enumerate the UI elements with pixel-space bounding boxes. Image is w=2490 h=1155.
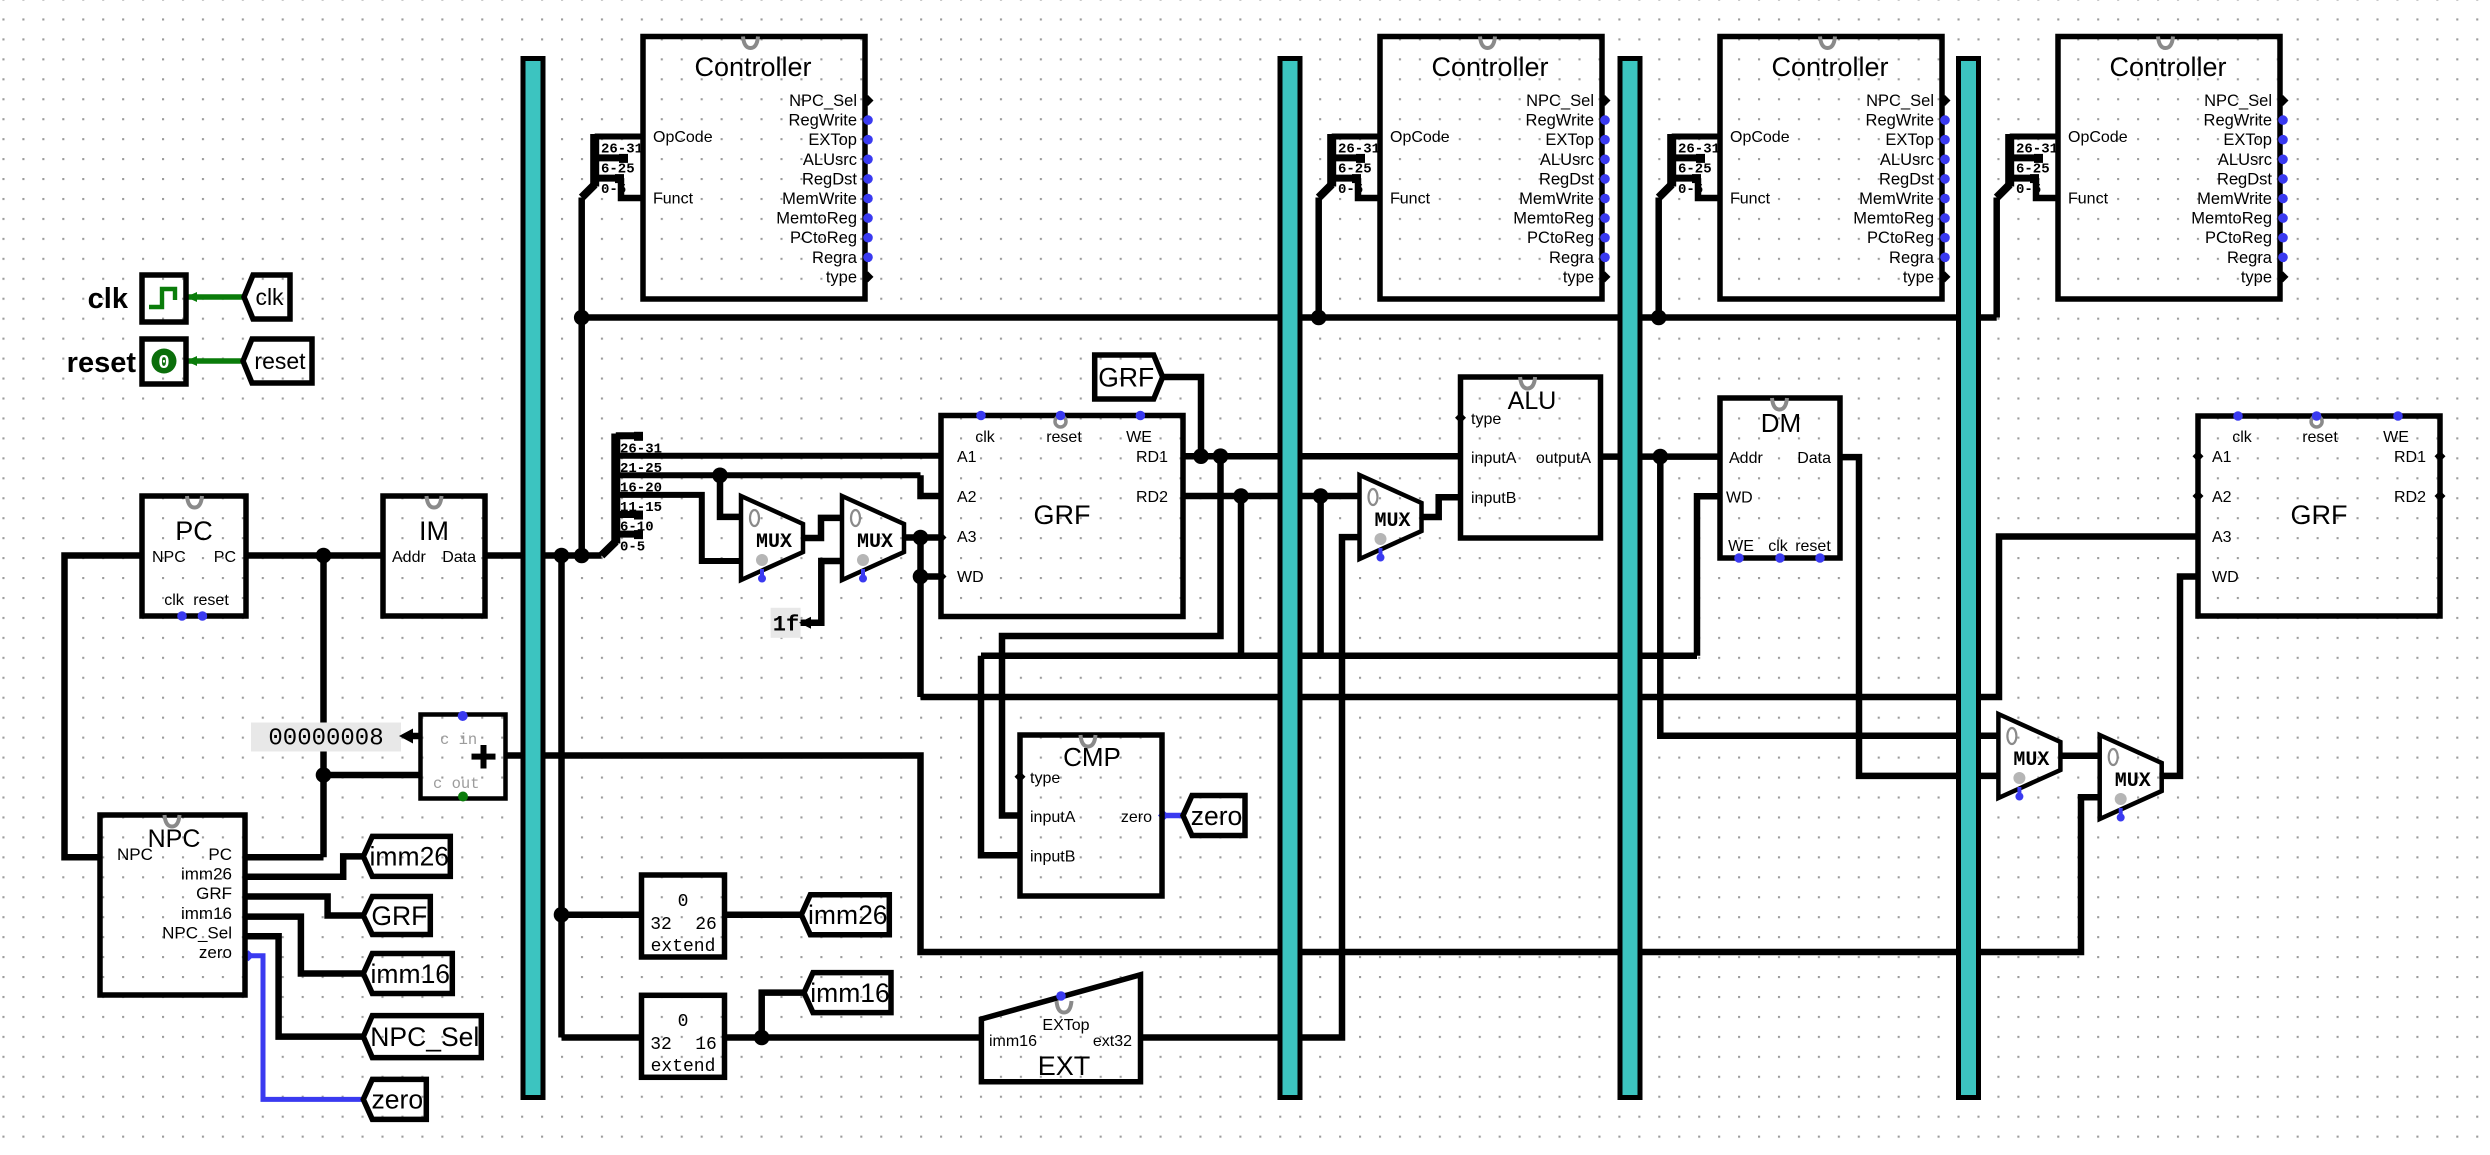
svg-text:Controller: Controller (1431, 52, 1548, 82)
mux MUX5 PCtoReg (2100, 735, 2162, 822)
wire to extend26 input (562, 911, 642, 918)
label splitter GRF 0-5 (620, 539, 645, 555)
svg-text:Controller: Controller (694, 52, 811, 82)
svg-text:1f: 1f (773, 613, 799, 638)
svg-text:MUX: MUX (857, 531, 893, 554)
controller 4 box (2058, 37, 2280, 300)
splitter controller 4 diagonal (1997, 185, 2010, 198)
pin label controller 4.NPC_Sel (2204, 92, 2272, 110)
svg-text:MUX: MUX (1374, 510, 1410, 533)
svg-text:MemWrite: MemWrite (1859, 190, 1934, 208)
label controller 3 title (1771, 52, 1888, 82)
svg-text:Data: Data (442, 549, 476, 566)
pin controller 3.MemtoReg (blue) (1940, 213, 1950, 223)
svg-text:A3: A3 (2212, 529, 2232, 546)
mux MUX4 MemtoReg (1998, 714, 2060, 801)
wire GRF RD2 to MUX3 input0 (1183, 493, 1360, 500)
label adder plus symbol (472, 745, 496, 769)
svg-text:ALU: ALU (1508, 387, 1557, 415)
label IM title (419, 516, 449, 546)
pin GRFr A2 diamond (2193, 491, 2204, 502)
pin label controller 4.type (2241, 268, 2272, 286)
wire tap to GRF WD (921, 573, 942, 580)
clock notch DM (1772, 398, 1787, 410)
splitter controller 1 branch 26-31 to OpCode (595, 134, 643, 140)
pin label controller 3.PCtoReg (1867, 229, 1934, 247)
clock notch GRF (1055, 416, 1066, 427)
svg-text:NPC_Sel: NPC_Sel (789, 92, 857, 110)
junction PC-IM to NPC column (316, 548, 332, 564)
wire extend16 output (725, 1034, 982, 1041)
pin label controller 1.MemWrite (782, 190, 857, 208)
pin label EXT.imm16 (989, 1033, 1037, 1050)
pin label PC.PC (214, 549, 236, 566)
splitter controller 3 stub 6-25 (1672, 154, 1705, 163)
pin controller 2.NPC_Sel diamond (1600, 95, 1611, 106)
svg-text:type: type (1563, 268, 1594, 286)
svg-text:NPC_Sel: NPC_Sel (162, 924, 232, 943)
junction extend26 input (554, 907, 570, 923)
wire MUX1 output to MUX2 input0 (803, 518, 842, 538)
pin GRFr reset (blue) (2312, 411, 2322, 421)
svg-text:Regra: Regra (812, 249, 858, 267)
svg-text:GRF: GRF (1034, 500, 1091, 530)
pin label controller 2.MemtoReg (1513, 210, 1594, 228)
svg-text:RegWrite: RegWrite (1526, 112, 1594, 130)
pin controller 3.ALUsrc (blue) (1940, 155, 1950, 165)
svg-text:Regra: Regra (2227, 249, 2273, 267)
splitter controller 1 diagonal (582, 185, 595, 198)
svg-text:MemtoReg: MemtoReg (776, 210, 857, 228)
pin PC clk (blue) (177, 611, 187, 621)
pin label controller 2.EXTop (1545, 131, 1594, 149)
svg-text:WE: WE (1126, 429, 1152, 446)
svg-text:EXTop: EXTop (808, 131, 857, 149)
label controller 1 title (694, 52, 811, 82)
label clk (88, 283, 129, 315)
pin label GRF.WE (1126, 429, 1152, 446)
label EXT EXTop (1042, 1017, 1089, 1034)
clock notch ALU (1520, 377, 1535, 389)
svg-text:zero: zero (372, 1085, 424, 1115)
pin label controller 2.Regra (1549, 249, 1595, 267)
label splitter controller 1 6-25 (601, 162, 635, 178)
wire IM Data bus (485, 552, 602, 559)
pin controller 1.MemtoReg (blue) (863, 213, 873, 223)
extender EXT (981, 975, 1140, 1082)
pin controller 4.PCtoReg (blue) (2278, 233, 2288, 243)
pin label GRFr.A2 (2212, 489, 2232, 506)
svg-text:MemtoReg: MemtoReg (2191, 210, 2272, 228)
svg-text:Addr: Addr (392, 549, 426, 566)
pin label CMP.inputA (1030, 809, 1076, 826)
svg-text:clk: clk (1768, 538, 1789, 555)
wire extend column (558, 556, 565, 1038)
svg-text:GRF: GRF (196, 884, 232, 903)
pin label controller 2.OpCode (1390, 129, 1450, 146)
wire riser controller 1 (578, 198, 585, 556)
wire clk input to tunnel (green) (186, 292, 244, 302)
svg-text:32: 32 (650, 1035, 672, 1055)
svg-text:PC: PC (208, 845, 232, 864)
pin label controller 3.ALUsrc (1880, 151, 1934, 169)
wire splitter controller 1 to Funct (621, 178, 643, 198)
pin adder carry-out (green) (458, 792, 468, 802)
svg-text:PC: PC (175, 516, 213, 546)
pin label CMP.type (1030, 770, 1060, 787)
pin label GRFr.WE (2383, 429, 2409, 446)
pin label NPC.zero (199, 943, 232, 962)
pin label DM.Addr (1729, 450, 1763, 467)
pin GRF WE (blue) (1136, 411, 1146, 421)
pin controller 4.type diamond (2278, 271, 2289, 282)
pin controller 2.ALUsrc (blue) (1600, 155, 1610, 165)
svg-text:PCtoReg: PCtoReg (1527, 229, 1594, 247)
label reset (67, 347, 137, 379)
pin label IM.Addr (392, 549, 426, 566)
svg-text:PC: PC (214, 549, 236, 566)
pin label ALU.inputA (1471, 450, 1517, 467)
svg-text:c out: c out (433, 775, 480, 793)
wire RD1 to CMP inputA (1002, 456, 1221, 815)
svg-text:type: type (1471, 411, 1501, 428)
svg-text:EXTop: EXTop (2223, 131, 2272, 149)
pin label GRFr.WD (2212, 569, 2239, 586)
label splitter GRF 21-25 (620, 461, 662, 477)
splitter controller 4 stub 6-25 (2010, 154, 2043, 163)
junction IM bus to controller riser (574, 548, 590, 564)
pin label NPC.GRF (196, 884, 232, 903)
pin controller 4.Regra (blue) (2278, 252, 2288, 262)
svg-text:reset: reset (67, 347, 137, 379)
splitter GRF stub 6-10 (616, 511, 643, 520)
junction RD1 CMP tap (1213, 448, 1229, 464)
splitter GRF diagonal (602, 542, 616, 556)
svg-text:imm16: imm16 (371, 959, 451, 989)
splitter controller 1 spine (590, 134, 599, 187)
svg-text:A2: A2 (2212, 489, 2232, 506)
pin label NPC.NPC (117, 845, 153, 864)
pin label controller 4.OpCode (2068, 129, 2128, 146)
pin controller 2.PCtoReg (blue) (1600, 233, 1610, 243)
memory IM (383, 496, 485, 616)
svg-text:RD2: RD2 (1136, 489, 1168, 506)
splitter GRF branch 16-20 (616, 472, 921, 478)
pin GRFr RD1 diamond (2435, 451, 2446, 462)
wire NPC zero to zero tunnel (blue) (243, 950, 363, 1099)
adder PC+8 (421, 715, 506, 799)
svg-text:GRF: GRF (1098, 362, 1154, 392)
svg-text:clk: clk (2232, 429, 2253, 446)
wire to adder input B (324, 772, 421, 779)
svg-text:26-31: 26-31 (1338, 142, 1380, 158)
pin label controller 1.NPC_Sel (789, 92, 857, 110)
label splitter controller 3 26-31 (1678, 142, 1720, 158)
pin controller 4.RegDst (blue) (2278, 174, 2288, 184)
pin label controller 1.ALUsrc (803, 151, 857, 169)
svg-text:ALUsrc: ALUsrc (2218, 151, 2272, 169)
pipeline register bar 2 (1280, 59, 1300, 1098)
label splitter controller 4 26-31 (2016, 142, 2058, 158)
pin controller 1.type diamond (863, 271, 874, 282)
pin DM clk (blue) (1775, 553, 1785, 563)
label splitter controller 2 6-25 (1338, 162, 1372, 178)
pin controller 3.type diamond (1940, 271, 1951, 282)
splitter GRF branch 21-25 to GRF A1 (616, 453, 941, 459)
pin label GRF.clk (975, 429, 996, 446)
tunnel imm26 (extend) (801, 895, 889, 935)
pin GRF reset (blue) (1056, 411, 1066, 421)
svg-text:type: type (826, 268, 857, 286)
splitter controller 1 stub 6-25 (595, 154, 628, 163)
svg-text:6-25: 6-25 (601, 162, 635, 178)
pin label controller 3.Funct (1730, 191, 1771, 208)
splitter controller 3 spine (1667, 134, 1676, 187)
pin label DM.Data (1797, 450, 1831, 467)
pin label controller 1.RegDst (802, 170, 857, 188)
label splitter controller 4 6-25 (2016, 162, 2050, 178)
wire PC feedback column (320, 556, 327, 858)
splitter GRF spine (611, 434, 620, 544)
svg-text:NPC_Sel: NPC_Sel (370, 1022, 479, 1052)
pin label controller 2.NPC_Sel (1526, 92, 1594, 110)
pin label GRFr.reset (2302, 429, 2338, 446)
svg-text:MUX: MUX (2013, 749, 2049, 772)
clock notch GRF right (2311, 416, 2322, 427)
wire GRF tunnel to RD1 net (1163, 377, 1201, 456)
pin GRFr RD2 diamond (2435, 491, 2446, 502)
wire MUX2 output to GRF A3 (903, 534, 941, 541)
controller 2 box (1380, 37, 1602, 300)
svg-text:PCtoReg: PCtoReg (790, 229, 857, 247)
svg-text:Addr: Addr (1729, 450, 1763, 467)
label splitter controller 3 6-25 (1678, 162, 1712, 178)
pin controller 3.RegDst (blue) (1940, 174, 1950, 184)
pin GRF WD diamond (936, 571, 947, 582)
clock notch controller 2 (1480, 37, 1495, 49)
junction riser controller 1 (574, 310, 590, 326)
wire splitter controller 4 to Funct (2036, 178, 2058, 198)
label NPC title (148, 825, 201, 853)
tunnel zero (NPC) (363, 1079, 426, 1119)
svg-text:Funct: Funct (2068, 191, 2109, 208)
pin controller 1.ALUsrc (blue) (863, 155, 873, 165)
pin label controller 1.PCtoReg (790, 229, 857, 247)
splitter controller 3 diagonal (1659, 185, 1672, 198)
svg-text:NPC_Sel: NPC_Sel (1526, 92, 1594, 110)
pin label controller 3.EXTop (1885, 131, 1934, 149)
junction IM bus to extend column (554, 548, 570, 564)
svg-text:OpCode: OpCode (2068, 129, 2128, 146)
svg-text:MemWrite: MemWrite (782, 190, 857, 208)
pin label PC.clk (164, 592, 185, 609)
pin label GRF.RD2 (1136, 489, 1168, 506)
svg-text:RD1: RD1 (1136, 449, 1168, 466)
pin label controller 2.RegWrite (1526, 112, 1594, 130)
pin label controller 3.NPC_Sel (1866, 92, 1934, 110)
wire NPC imm16 to imm16 tunnel (245, 917, 363, 974)
svg-text:EXTop: EXTop (1042, 1017, 1089, 1034)
svg-text:extend: extend (651, 937, 716, 957)
svg-text:11-15: 11-15 (620, 500, 662, 516)
wire to extend16 input (562, 1034, 642, 1041)
pin label PC.NPC (152, 549, 186, 566)
pin controller 1.RegDst (blue) (863, 174, 873, 184)
label splitter GRF 26-31 (620, 441, 662, 457)
pin label controller 4.Regra (2227, 249, 2273, 267)
wire extend16 to imm16 tunnel (762, 993, 804, 1038)
pin label controller 4.MemWrite (2197, 190, 2272, 208)
wire controller distribution bus (582, 314, 1997, 321)
tunnel imm16 (extend) (804, 973, 891, 1013)
label splitter GRF 11-15 (620, 500, 662, 516)
svg-text:16: 16 (695, 1035, 717, 1055)
svg-text:reset: reset (2302, 429, 2338, 446)
svg-text:NPC_Sel: NPC_Sel (2204, 92, 2272, 110)
svg-text:NPC: NPC (117, 845, 153, 864)
pin label controller 2.MemWrite (1519, 190, 1594, 208)
pin label controller 4.EXTop (2223, 131, 2272, 149)
pin label controller 1.MemtoReg (776, 210, 857, 228)
svg-text:NPC: NPC (148, 825, 201, 853)
svg-text:WD: WD (2212, 569, 2239, 586)
tunnel imm16 (NPC) (363, 954, 452, 994)
pin label GRF.A2 (957, 489, 977, 506)
pin controller 4.MemtoReg (blue) (2278, 213, 2288, 223)
splitter controller 2 diagonal (1319, 185, 1332, 198)
wire PC to IM Addr (246, 552, 383, 559)
pin controller 2.RegDst (blue) (1600, 174, 1610, 184)
pin label EXT.ext32 (1093, 1033, 1132, 1050)
pin label controller 4.Funct (2068, 191, 2109, 208)
svg-text:0-5: 0-5 (620, 539, 645, 555)
svg-text:NPC_Sel: NPC_Sel (1866, 92, 1934, 110)
splitter controller 4 branch 26-31 to OpCode (2010, 134, 2058, 140)
wire writeback register to right GRF A3 (921, 537, 2199, 698)
svg-text:PCtoReg: PCtoReg (2205, 229, 2272, 247)
pin controller 3.PCtoReg (blue) (1940, 233, 1950, 243)
clock notch controller 3 (1820, 37, 1835, 49)
label adder c out (433, 775, 480, 793)
junction to adder input B (316, 767, 332, 783)
svg-text:RegWrite: RegWrite (1866, 112, 1934, 130)
pin controller 4.NPC_Sel diamond (2278, 95, 2289, 106)
svg-text:A2: A2 (957, 489, 977, 506)
svg-text:EXT: EXT (1038, 1051, 1091, 1081)
label splitter controller 3 0-5 (1678, 182, 1703, 198)
pin label controller 1.Regra (812, 249, 858, 267)
svg-text:MUX: MUX (2115, 770, 2151, 793)
wire MUX4 output to MUX5 input0 (2061, 753, 2100, 760)
alu ALU (1461, 377, 1601, 538)
mux MUX3 ALUsrc (1360, 475, 1422, 562)
constant 00000008 (251, 723, 422, 753)
svg-text:ext32: ext32 (1093, 1033, 1132, 1050)
svg-text:imm26: imm26 (370, 842, 450, 872)
pin label controller 3.RegDst (1879, 170, 1934, 188)
svg-text:A3: A3 (957, 529, 977, 546)
pin controller 4.EXTop (blue) (2278, 135, 2288, 145)
pin label controller 2.RegDst (1539, 170, 1594, 188)
svg-text:Regra: Regra (1889, 249, 1935, 267)
pipeline register bar 4 (1959, 59, 1979, 1098)
junction GRF WD tap (913, 569, 929, 585)
svg-text:MUX: MUX (756, 531, 792, 554)
wire EXT ext32 to MUX3 input1 (1141, 537, 1360, 1037)
pin controller 1.NPC_Sel diamond (863, 95, 874, 106)
unit NPC (100, 815, 245, 995)
pin label controller 4.ALUsrc (2218, 151, 2272, 169)
svg-text:RegDst: RegDst (1539, 170, 1594, 188)
svg-text:0: 0 (158, 352, 169, 374)
wire MUX5 output to right GRF WD (2159, 577, 2198, 776)
splitter GRF stub 0-5 (616, 530, 643, 539)
pin label CMP.zero (1121, 809, 1152, 826)
svg-text:RegWrite: RegWrite (789, 112, 857, 130)
pin label controller 3.MemtoReg (1853, 210, 1934, 228)
svg-text:WD: WD (957, 569, 984, 586)
wire CMP zero to zero tunnel (blue) (1158, 810, 1183, 821)
tunnel GRF (NPC) (363, 897, 430, 935)
pin label NPC.imm16 (181, 904, 232, 923)
svg-text:A1: A1 (2212, 449, 2232, 466)
pin GRFr WE (blue) (2393, 411, 2403, 421)
input pin clk (142, 275, 186, 322)
svg-text:MemWrite: MemWrite (1519, 190, 1594, 208)
pin GRFr A1 diamond (2193, 451, 2204, 462)
wire branch 16-20 to MUX1 input0 (720, 475, 741, 517)
splitter controller 2 stub 6-25 (1332, 154, 1365, 163)
pin label controller 1.type (826, 268, 857, 286)
svg-text:DM: DM (1761, 408, 1801, 438)
pin label NPC.NPC_Sel (162, 924, 232, 943)
svg-text:NPC: NPC (152, 549, 186, 566)
clock notch CMP (1081, 735, 1096, 747)
extender extend16 (642, 995, 725, 1077)
pin label GRFr.RD2 (2394, 489, 2426, 506)
pin label ALU.inputB (1471, 490, 1516, 507)
pin controller 1.MemWrite (blue) (863, 194, 873, 204)
pin label controller 1.RegWrite (789, 112, 857, 130)
label controller 4 title (2109, 52, 2226, 82)
pin label IM.Data (442, 549, 476, 566)
svg-text:CMP: CMP (1063, 742, 1121, 772)
pin controller 3.Regra (blue) (1940, 252, 1950, 262)
svg-text:WE: WE (1728, 538, 1754, 555)
svg-text:RegDst: RegDst (1879, 170, 1934, 188)
svg-text:WE: WE (2383, 429, 2409, 446)
pin label CMP.inputB (1030, 849, 1075, 866)
svg-text:type: type (1030, 770, 1060, 787)
pin label controller 3.OpCode (1730, 129, 1790, 146)
splitter controller 4 stub 0-5 (2010, 174, 2039, 183)
svg-text:6-25: 6-25 (1338, 162, 1372, 178)
register file GRF right (2198, 416, 2440, 616)
junction RD2 CMP tap (1233, 488, 1249, 504)
wire RD2 net to DM WD (1697, 496, 1720, 656)
pin label GRF.RD1 (1136, 449, 1168, 466)
wire DM Data to MUX4 input1 (1841, 457, 1998, 776)
pin label PC.reset (193, 592, 229, 609)
splitter controller 2 branch 26-31 to OpCode (1332, 134, 1380, 140)
pin label DM.reset (1795, 538, 1831, 555)
svg-text:6-10: 6-10 (620, 520, 654, 536)
svg-text:OpCode: OpCode (1390, 129, 1450, 146)
label controller 2 title (1431, 52, 1548, 82)
clock notch PC (187, 496, 202, 508)
pin controller 3.EXTop (blue) (1940, 135, 1950, 145)
pin label controller 4.MemtoReg (2191, 210, 2272, 228)
